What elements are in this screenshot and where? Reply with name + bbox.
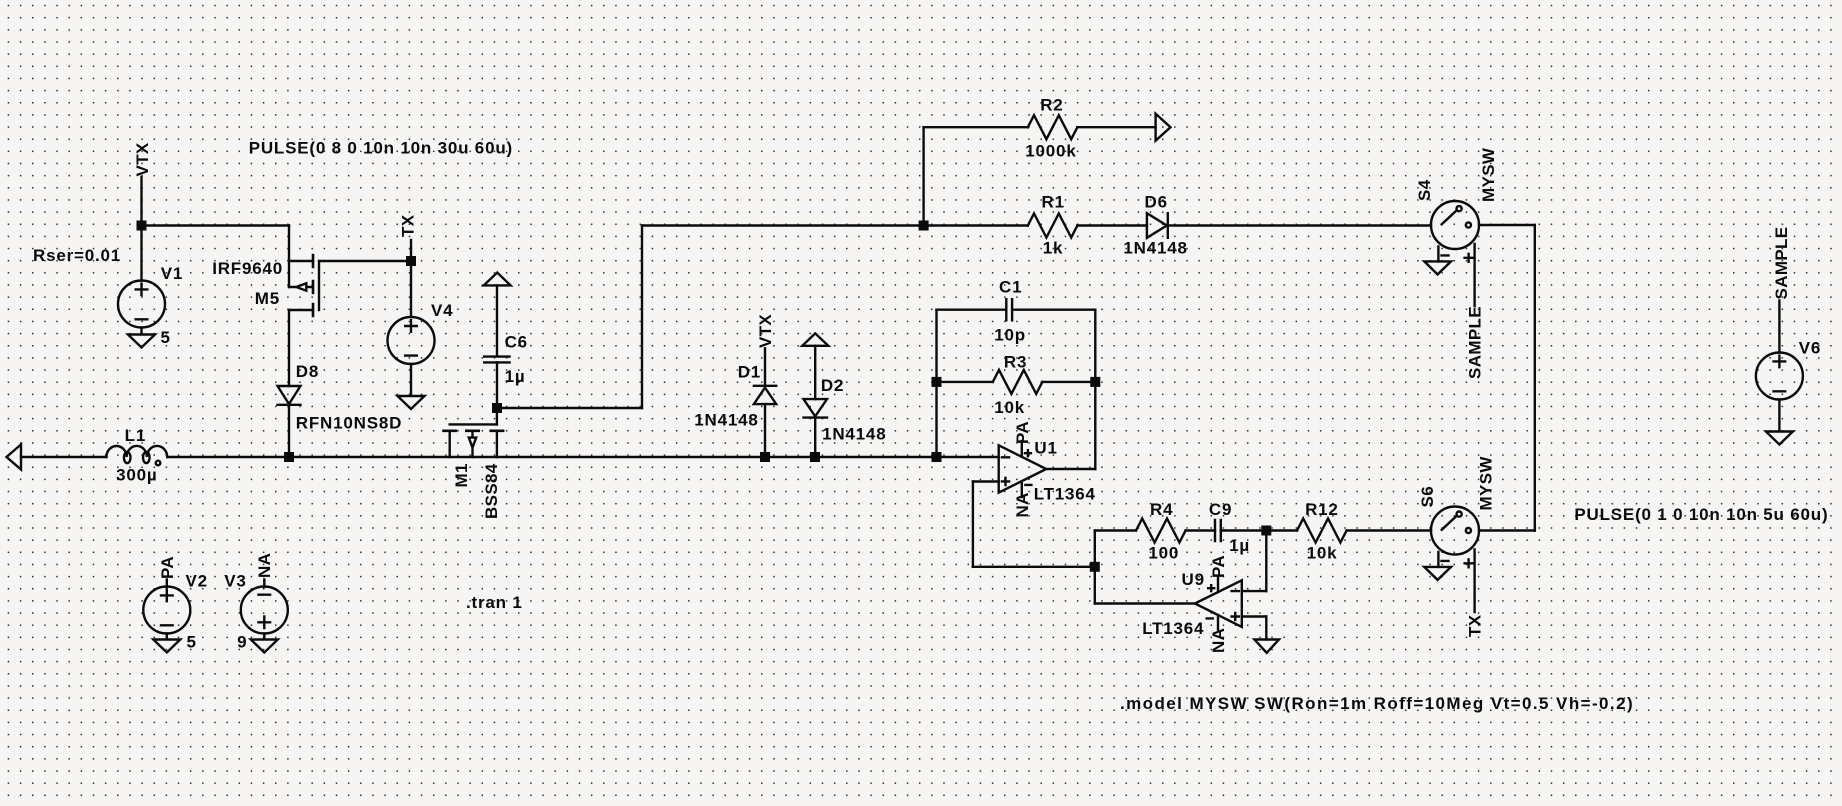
voltage source V4 bbox=[388, 317, 435, 364]
svg-text:V3: V3 bbox=[224, 572, 246, 591]
wire R2 to arrow bbox=[1077, 126, 1155, 128]
svg-text:LT1364: LT1364 bbox=[1142, 619, 1204, 638]
svg-text:C6: C6 bbox=[505, 333, 528, 352]
op-amp U9 LT1364 triangle (mirrored) bbox=[1195, 580, 1242, 627]
wire S6 to R12 bbox=[1347, 529, 1431, 531]
switch S6 minus control pin bbox=[1438, 552, 1448, 567]
wire arrow to D2 bbox=[814, 346, 816, 399]
wire VTX junction to M5 bbox=[142, 224, 290, 226]
voltage source V6 bbox=[1756, 353, 1803, 400]
wire R1 lead left bbox=[924, 224, 1028, 226]
svg-text:1µ: 1µ bbox=[505, 367, 526, 386]
svg-text:V6: V6 bbox=[1799, 339, 1821, 358]
ground below V4 bbox=[398, 364, 425, 409]
wire V1 top bbox=[140, 226, 142, 281]
transistor M1 body bar bbox=[450, 423, 497, 425]
svg-text:1N4148: 1N4148 bbox=[822, 425, 886, 444]
wire U1 + input stub bbox=[973, 480, 999, 482]
wire D2 to main net bbox=[814, 418, 816, 457]
resistor R4 100 bbox=[1136, 519, 1186, 543]
svg-text:.model MYSW SW(Ron=1m Roff=10M: .model MYSW SW(Ron=1m Roff=10Meg Vt=0.5 … bbox=[1120, 694, 1634, 713]
resistor R12 10k bbox=[1297, 519, 1347, 543]
wire R4 left lead bbox=[1095, 529, 1136, 531]
ground below U9 bbox=[1254, 640, 1279, 653]
svg-text:TX: TX bbox=[1465, 614, 1484, 637]
wire R1 to D6 bbox=[1077, 224, 1147, 226]
wire main net M1 to D1 bbox=[497, 456, 765, 458]
transistor M5 drain stub bbox=[289, 309, 313, 311]
node R3 right junction bbox=[1090, 377, 1100, 387]
wire D6 to S4 bbox=[1168, 224, 1431, 226]
voltage source V3 (inverted) bbox=[241, 587, 288, 634]
wire U9 output up to R4 junction bbox=[1094, 567, 1096, 604]
svg-text:PULSE(0 8 0 10n 10n 30u 60u): PULSE(0 8 0 10n 10n 30u 60u) bbox=[249, 139, 513, 158]
node C9/R12 junction bbox=[1261, 526, 1271, 536]
svg-text:S6: S6 bbox=[1418, 486, 1437, 508]
svg-text:C9: C9 bbox=[1209, 500, 1232, 519]
node D8 junction bbox=[284, 452, 294, 462]
wire D1 to main net bbox=[764, 404, 766, 457]
arrow port flag at left of L1 net bbox=[7, 445, 22, 470]
wire arrow to L1 bbox=[21, 456, 106, 458]
capacitor C1 10p bbox=[1006, 299, 1012, 320]
svg-text:R1: R1 bbox=[1042, 193, 1065, 212]
wire D8 to main net bbox=[288, 405, 290, 457]
capacitor C6 bbox=[484, 357, 509, 363]
svg-text:M1: M1 bbox=[452, 463, 471, 487]
wire U1 + input down bbox=[972, 482, 974, 567]
svg-text:PA: PA bbox=[1209, 555, 1228, 578]
wire U9 inverting stub bbox=[1242, 590, 1267, 592]
wire R12 left lead bbox=[1266, 529, 1297, 531]
ground below V1 bbox=[128, 328, 155, 348]
svg-text:R3: R3 bbox=[1004, 353, 1027, 372]
op-amp U1 input polarity marks bbox=[1002, 457, 1009, 485]
svg-text:IRF9640: IRF9640 bbox=[212, 259, 283, 278]
wire junction down to U9 inverting input bbox=[1265, 531, 1267, 592]
svg-text:100: 100 bbox=[1148, 544, 1179, 563]
wire TX junction down to V4 bbox=[410, 261, 412, 317]
capacitor C9 1u bbox=[1215, 520, 1221, 541]
op-amp U9 bottom power pin with minus bbox=[1207, 615, 1218, 630]
svg-text:1000k: 1000k bbox=[1025, 142, 1076, 161]
node VTX junction bbox=[137, 221, 147, 231]
svg-text:VTX: VTX bbox=[756, 314, 775, 348]
svg-text:M5: M5 bbox=[255, 289, 280, 308]
wire C6 junction to riser bbox=[497, 407, 642, 409]
wire main net to U1 inverting input bbox=[937, 456, 999, 458]
svg-text:9: 9 bbox=[237, 633, 247, 652]
wire S4 to right corner bbox=[1479, 224, 1535, 226]
ground below V6 bbox=[1766, 400, 1793, 445]
wire C1 left vertical bbox=[935, 310, 937, 457]
wire C6 to junction bbox=[496, 362, 498, 408]
voltage source V6 label stub bbox=[1778, 301, 1780, 353]
ground below V2 bbox=[153, 634, 180, 653]
inductor L1 bbox=[106, 446, 167, 457]
transistor M1 gate stub with bubble bbox=[469, 432, 476, 458]
svg-text:1µ: 1µ bbox=[1229, 536, 1250, 555]
svg-text:R4: R4 bbox=[1150, 500, 1173, 519]
wire L1 to D8 junction bbox=[167, 456, 289, 458]
wire + input down to ground bbox=[1265, 617, 1267, 640]
transistor M5 channel ticks bbox=[312, 255, 315, 316]
transistor M1 channel ticks bbox=[444, 429, 504, 432]
wire R3 right lead bbox=[1042, 381, 1095, 383]
node D2 junction bbox=[810, 452, 820, 462]
svg-text:BSS84: BSS84 bbox=[482, 463, 501, 519]
wire corner to S6 bbox=[1479, 529, 1535, 531]
wire junction up to R4 lead corner bbox=[1094, 531, 1096, 567]
diode D1 1N4148 bbox=[754, 386, 776, 404]
svg-text:1k: 1k bbox=[1043, 239, 1064, 258]
svg-text:5: 5 bbox=[161, 328, 171, 347]
wire C1/R3 right vertical to U1 output bbox=[1094, 310, 1096, 469]
switch S4 plus control pin to SAMPLE label bbox=[1465, 244, 1475, 306]
node TX label stub bbox=[410, 240, 412, 261]
wire + input to R4 junction bbox=[973, 566, 1095, 568]
voltage source V2 bbox=[143, 587, 190, 634]
wire U9 output bbox=[1095, 602, 1195, 604]
svg-text:NA: NA bbox=[1013, 492, 1032, 517]
svg-text:1N4148: 1N4148 bbox=[1123, 239, 1187, 258]
arrow port flag right of R2 bbox=[1156, 114, 1171, 141]
wire riser to R1/R2 junction bbox=[642, 224, 924, 226]
ground below S6 bbox=[1424, 567, 1451, 580]
svg-text:C1: C1 bbox=[999, 278, 1022, 297]
node VTX label stub wire bbox=[140, 177, 142, 226]
op-amp U9 top power pin with plus bbox=[1208, 578, 1218, 593]
svg-text:RFN10NS8D: RFN10NS8D bbox=[296, 414, 402, 433]
node D1 junction bbox=[760, 452, 770, 462]
svg-text:U9: U9 bbox=[1182, 570, 1205, 589]
wire M1 to C6 junction bbox=[496, 408, 498, 424]
svg-text:NA: NA bbox=[255, 553, 274, 578]
svg-text:D8: D8 bbox=[296, 362, 319, 381]
svg-text:S4: S4 bbox=[1415, 179, 1434, 201]
voltage source V3 label stub bbox=[263, 580, 265, 588]
svg-text:TX: TX bbox=[399, 214, 418, 237]
svg-text:10p: 10p bbox=[994, 326, 1026, 345]
svg-text:D6: D6 bbox=[1145, 193, 1168, 212]
op-amp U1 bottom power pin with minus bbox=[1022, 482, 1032, 498]
svg-text:L1: L1 bbox=[125, 426, 146, 445]
diode D6 1N4148 bbox=[1147, 213, 1168, 238]
wire main net D8 junction to M1 bbox=[289, 456, 497, 458]
svg-text:R12: R12 bbox=[1305, 500, 1339, 519]
op-amp U1 LT1364 triangle bbox=[999, 445, 1047, 492]
wire R3 left lead bbox=[937, 381, 993, 383]
switch S4 MYSW bbox=[1431, 201, 1479, 249]
diode D8 RFN10NS8D bbox=[278, 386, 301, 405]
voltage source V2 label stub bbox=[166, 580, 168, 588]
diode D2 1N4148 bbox=[804, 399, 828, 418]
ground below S4 bbox=[1424, 261, 1451, 274]
wire riser up to R1 net bbox=[641, 226, 643, 409]
node C6 junction bbox=[492, 403, 502, 413]
svg-text:NA: NA bbox=[1209, 628, 1228, 653]
transistor M5 source stub bbox=[289, 260, 313, 262]
wire TX net from M5 bbox=[319, 260, 411, 262]
node R3 left junction bbox=[932, 377, 942, 387]
wire U1 output bbox=[1046, 468, 1095, 470]
wire arrow to C6 bbox=[496, 285, 498, 356]
node TX junction bbox=[406, 256, 416, 266]
svg-text:V1: V1 bbox=[161, 264, 183, 283]
wire R2 branch up bbox=[922, 127, 924, 225]
wire M5 drain down to D8 bbox=[288, 310, 290, 386]
svg-text:PA: PA bbox=[158, 556, 177, 579]
op-amp U1 top power pin with plus bbox=[1022, 441, 1031, 457]
node R4 net junction bbox=[1090, 562, 1100, 572]
voltage source V1 bbox=[118, 281, 165, 328]
wire U9 non-inverting stub bbox=[1242, 615, 1267, 617]
svg-text:1N4148: 1N4148 bbox=[694, 411, 758, 430]
op-amp U9 input polarity marks bbox=[1232, 591, 1239, 620]
svg-text:V2: V2 bbox=[186, 572, 208, 591]
ground below V3 bbox=[251, 634, 278, 653]
svg-text:MYSW: MYSW bbox=[1479, 147, 1498, 202]
wire main net D2 to R3 branch junction bbox=[765, 456, 937, 458]
svg-text:300µ: 300µ bbox=[116, 466, 157, 485]
wire C1 top left lead bbox=[937, 309, 1007, 311]
svg-text:MYSW: MYSW bbox=[1477, 456, 1496, 511]
svg-text:10k: 10k bbox=[994, 398, 1025, 417]
switch S6 MYSW bbox=[1431, 507, 1479, 555]
svg-text:SAMPLE: SAMPLE bbox=[1772, 227, 1791, 300]
svg-text:D1: D1 bbox=[738, 363, 761, 382]
svg-text:VTX: VTX bbox=[133, 142, 152, 176]
transistor M1 (BSS84) left stub bbox=[449, 432, 451, 458]
svg-text:.tran 1: .tran 1 bbox=[466, 593, 523, 612]
transistor M1 right stub bbox=[496, 432, 498, 458]
arrow flag above C6 bbox=[484, 273, 511, 286]
resistor R1 1k bbox=[1028, 214, 1078, 238]
transistor M5 body bar bbox=[318, 261, 320, 310]
wire right riser S4 to S6 bbox=[1534, 225, 1536, 531]
svg-text:Rser=0.01: Rser=0.01 bbox=[33, 246, 121, 265]
svg-text:R2: R2 bbox=[1040, 96, 1063, 115]
node VTX label stub at D1 bbox=[764, 348, 766, 386]
svg-text:SAMPLE: SAMPLE bbox=[1466, 306, 1485, 379]
wire R4 to C9 bbox=[1186, 529, 1215, 531]
transistor M5 gate stub with bubble bbox=[289, 283, 313, 290]
transistor M5 (IRF9640 PMOS) wire from VTX corner down to gate bbox=[288, 226, 290, 288]
resistor R3 10k bbox=[993, 370, 1043, 394]
node main net junction below R3 bbox=[932, 452, 942, 462]
wire C1 right lead bbox=[1012, 309, 1095, 311]
arrow flag above D2 bbox=[802, 333, 828, 345]
svg-text:D2: D2 bbox=[821, 376, 844, 395]
svg-text:V4: V4 bbox=[431, 301, 453, 320]
svg-text:LT1364: LT1364 bbox=[1034, 485, 1096, 504]
node R1/R2 junction bbox=[919, 221, 929, 231]
svg-text:5: 5 bbox=[187, 633, 197, 652]
resistor R2 1000k bbox=[1028, 115, 1078, 139]
wire C9 right lead bbox=[1221, 529, 1267, 531]
switch S6 plus control pin to TX label bbox=[1465, 550, 1475, 613]
svg-text:PA: PA bbox=[1013, 421, 1032, 444]
svg-text:10k: 10k bbox=[1307, 544, 1338, 563]
svg-text:U1: U1 bbox=[1034, 439, 1057, 458]
svg-text:PULSE(0 1 0 10n 10n 5u 60u): PULSE(0 1 0 10n 10n 5u 60u) bbox=[1574, 505, 1828, 524]
wire R2 lead left bbox=[924, 126, 1028, 128]
switch S4 minus control pin bbox=[1438, 247, 1448, 262]
